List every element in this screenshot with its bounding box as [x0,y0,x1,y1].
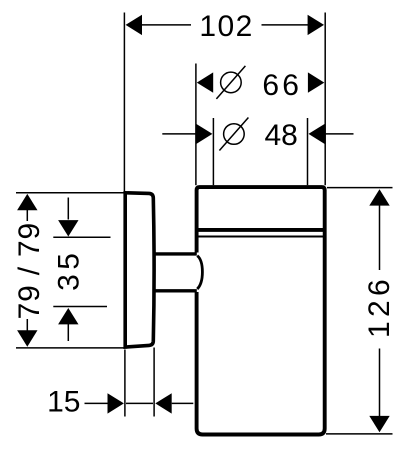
svg-text:126: 126 [363,275,396,338]
svg-text:48: 48 [265,119,298,152]
svg-text:35: 35 [53,249,86,291]
dim d48: left leader line [162,133,196,135]
dim 102: right extension line [324,13,326,186]
dim 35: bottom line [67,324,69,342]
dim d48: diameter symbol [224,124,245,145]
dim 79/79: line segments [26,209,28,332]
dim 126: top extension line [327,187,393,189]
dim d48: right arrow [309,124,325,144]
dim 102: left extension line [123,13,125,193]
dim 102: line left segment [142,24,191,26]
dim 79/79: up arrow [17,194,37,210]
dim 102: line right segment [262,24,310,26]
dim 35: top line [67,198,69,220]
dim 126: down arrow [369,416,389,432]
dim d66: diameter symbol [221,72,242,93]
svg-text:66: 66 [262,69,302,102]
dim d48: left extension line [212,118,214,185]
dim d48: right leader line [325,133,354,135]
svg-text:102: 102 [199,10,254,43]
dim 15: right leader line [172,402,194,404]
dim 35: down arrow [58,220,78,236]
cup inner rim line [197,235,324,237]
dim 102: right arrow [308,15,324,35]
dim 15: middle segment [126,402,153,404]
dim d66: left extension line [195,64,197,186]
arm top edge [153,252,197,255]
dim 15: right extension line [153,348,155,417]
dim 15: left extension line [124,350,126,417]
dim d48: left arrow [196,124,212,144]
svg-text:79 / 79: 79 / 79 [13,222,46,319]
dim d66: right arrow [308,72,324,92]
cup rim bottom line [197,228,325,232]
dim 102: left arrow [126,15,142,35]
dim 15: leader line [85,402,109,404]
dim 79/79: down arrow [17,330,37,346]
dim 15: left arrow [108,393,124,413]
dim 79/79: bottom extension line [16,347,124,349]
dim d48: right extension line [307,118,309,185]
dim 126: up arrow [369,189,389,205]
dim 126: line segments [379,205,381,418]
wall plate [125,193,154,347]
dim 126: bottom extension line [326,433,393,435]
dim 35: top extension line [53,236,110,238]
arm end bump [197,256,202,289]
dim 15: right arrow [155,393,171,413]
dim 79/79: top extension line [16,192,125,194]
cup outline [197,187,325,434]
dim d66: left arrow [197,72,213,92]
dim 35: bottom extension line [53,306,107,308]
dim 35: up arrow [58,308,78,324]
svg-text:15: 15 [47,386,80,419]
arm bottom edge [153,289,197,292]
